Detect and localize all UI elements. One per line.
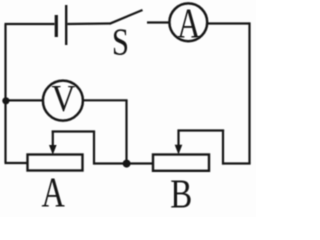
label A (ammeter letter) (177, 2, 200, 48)
voltmeter V1 circle (43, 81, 83, 121)
label A (rheostat A) (42, 169, 65, 216)
rheostat A body box (28, 155, 83, 171)
wire battery to switch pivot (68, 22, 111, 25)
node junction dot (left wire / voltmeter tap) (2, 97, 9, 104)
label V (voltmeter letter) (51, 77, 75, 119)
wire junction riser up to voltmeter branch (125, 100, 127, 163)
wire voltmeter right horizontal (84, 99, 128, 101)
wire top-left (corner to battery) (5, 23, 55, 25)
switch S fixed contact wire (147, 21, 170, 23)
svg-text:S: S (112, 20, 129, 63)
ammeter A1 circle (169, 3, 207, 41)
wire rheostat A wiper riser down (93, 132, 95, 165)
wire bottom-left to rheostat A left terminal (5, 162, 29, 164)
svg-text:V: V (51, 77, 75, 119)
wire rheostat B wiper horizontal (178, 129, 225, 131)
svg-text:A: A (42, 169, 65, 216)
wire rheostat A wiper to junction (94, 162, 127, 164)
wire rheostat B wiper riser down (222, 130, 224, 165)
battery BT long plate (positive) (65, 5, 67, 45)
wire left vertical (battery negative to bottom-left corner) (4, 24, 6, 163)
wire voltmeter left horizontal (5, 99, 43, 101)
svg-text:A: A (177, 2, 200, 48)
label S (switch) (112, 20, 129, 63)
label B (rheostat B) (170, 172, 192, 217)
rheostat B wiper arrow stem (177, 130, 179, 146)
wire bottom-right (right wire to rheostat B wiper branch) (222, 162, 251, 164)
wire junction to rheostat B left terminal (127, 162, 154, 164)
wire rheostat A wiper horizontal (52, 130, 95, 132)
rheostat A wiper arrow stem (52, 131, 54, 147)
rheostat B wiper arrowhead (175, 145, 183, 155)
rheostat A wiper arrowhead (49, 145, 57, 155)
switch S arm (open blade) (110, 10, 143, 24)
svg-text:B: B (170, 172, 192, 217)
node junction dot (bottom centre) (123, 160, 131, 168)
rheostat B body box (153, 155, 209, 171)
battery BT short plate (negative) (55, 15, 58, 37)
wire right vertical (248, 22, 250, 163)
wire ammeter to top-right corner (208, 22, 249, 24)
